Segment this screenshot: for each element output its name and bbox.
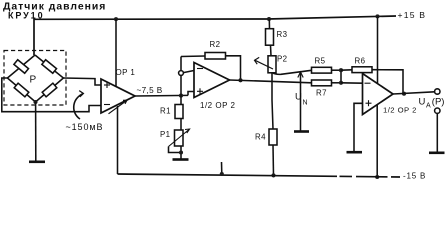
OP2 + symbol [197,88,203,94]
svg-text:P1: P1 [160,130,170,139]
OP3 - symbol [365,82,371,84]
wire summing node to R6 [341,69,352,71]
wire OP3 + input to ground [354,103,363,152]
wire summing node to OP3 - input [341,82,363,84]
svg-text:N: N [303,100,308,107]
svg-text:1/2 OP 2: 1/2 OP 2 [383,106,417,115]
wire OP1 positive supply from +15V rail [115,19,117,87]
wire circle to OP2 - input [183,71,194,73]
svg-text:+15 В: +15 В [398,10,427,20]
OP1 + symbol [104,82,110,88]
rail scan gaps [337,175,391,180]
op-amp OP1 triangle [101,79,135,113]
OP1 offset trim arrow [109,100,127,114]
node summing lower [339,81,343,85]
wire R1 to P1 [180,119,182,131]
node junction top rail / OP1 supply [114,17,118,21]
bridge resistor top-right [42,60,57,73]
svg-text:R2: R2 [210,40,221,49]
annotation arc ~150mV [74,94,83,119]
node R4 / rail [271,173,275,177]
wire bridge left node to OP1 - input [2,78,101,112]
P1 wiper arrow [169,129,190,147]
bridge P: diamond wires [7,55,63,102]
arrowhead of arc [79,91,83,97]
resistor R7 [312,80,332,86]
wire R6 to output (feedback) [372,70,403,94]
wire OP3 positive supply [377,16,379,83]
potentiometer P1 [175,130,184,146]
wire R5 right to summing node [332,69,342,71]
stub on rail (OP2 supply remnant) [221,162,223,174]
P2 wiper arrow [255,57,274,69]
svg-text:R6: R6 [355,57,366,66]
node P1 bottom [179,150,183,154]
node junction top rail / R3 [267,17,271,21]
wire OP2 output to R7 [230,80,312,83]
wire OP3 output to terminal [393,92,435,94]
wire bridge bottom to ground [35,102,37,162]
potentiometer P2 [268,56,276,73]
bridge resistor top-left [14,60,29,74]
resistor R3 [266,29,274,46]
bridge resistor bottom-left [14,83,29,97]
terminal circle lower [435,108,440,113]
OP1 - symbol [104,104,110,106]
wire P2 bottom to R4 [272,73,273,129]
wire +15V top rail [34,16,396,55]
resistor R4 [269,129,277,145]
svg-text:1/2 OP 2: 1/2 OP 2 [200,101,235,110]
svg-text:R3: R3 [277,30,288,39]
resistor R2 [205,53,226,60]
wire R2 to OP2 output [226,56,241,81]
svg-text:P2: P2 [277,55,287,64]
resistor R5 [312,67,332,73]
wire R3 to P2 [270,46,273,56]
sensor dashed box [4,51,66,106]
node bridge bottom [33,100,37,104]
node summing upper [339,68,343,72]
wire OP1 negative supply down to -15V rail [117,106,119,174]
node feedback / output [402,92,406,96]
wire to R2 [181,55,205,58]
svg-text:OP 1: OP 1 [116,68,136,77]
op-amp OP3 triangle [363,74,394,115]
svg-text:-15 В: -15 В [403,172,426,181]
wire R3 from rail [268,19,270,29]
bridge resistor bottom-right [42,83,57,97]
wire bridge right node to OP1 + input [63,78,101,85]
wire R7 right to summing node [332,82,342,84]
svg-text:R4: R4 [255,133,266,142]
wire P1 bottom + wiper return [169,147,182,153]
wire summing node vertical [340,70,342,83]
wire OP3 negative supply to -15V rail [376,105,378,178]
node OP3 negative supply / rail [375,175,379,179]
svg-text:~7,5 В: ~7,5 В [137,86,163,95]
terminal circle on OP2 - node [179,71,184,76]
wire OP1 output [135,94,188,97]
OP3 + symbol [366,100,372,106]
resistor R1 [175,105,183,119]
terminal circle UA upper [435,89,440,94]
resistor R6 [352,67,372,73]
svg-text:~150мВ: ~150мВ [66,122,104,132]
wire jog to OP2 + input [188,92,194,96]
svg-text:R1: R1 [160,107,171,116]
ground (OP3 +) [347,151,363,154]
wire R4 to -15V rail [272,145,275,175]
svg-text:(P): (P) [432,97,445,108]
wire OP2 inverting node vertical (R2 to R1) [180,57,182,105]
ground (U_N reference) [294,130,309,133]
node OP1 output / R1 junction [179,94,183,98]
svg-text:P: P [30,75,37,86]
wire -15V bottom rail [118,174,401,177]
svg-text:R7: R7 [316,89,327,98]
node stub / rail [220,172,224,176]
svg-text:R5: R5 [315,57,326,66]
svg-text:U: U [295,91,302,102]
wire P2 tap to R5 line [273,70,312,74]
ground (output port) [429,152,445,155]
svg-text:U: U [419,97,426,108]
op-amp OP2 triangle [194,63,230,98]
wire P1 to ground [180,146,182,160]
ground (P1) [173,158,189,161]
OP2 - symbol [197,68,203,70]
ground (bridge) [29,161,45,164]
svg-text:A: A [426,102,431,109]
voltage arrow U_N [298,72,303,132]
node junction top rail / OP3 supply [375,14,379,18]
node R2/output junction [238,78,242,82]
wire lower terminal to ground [436,113,438,152]
